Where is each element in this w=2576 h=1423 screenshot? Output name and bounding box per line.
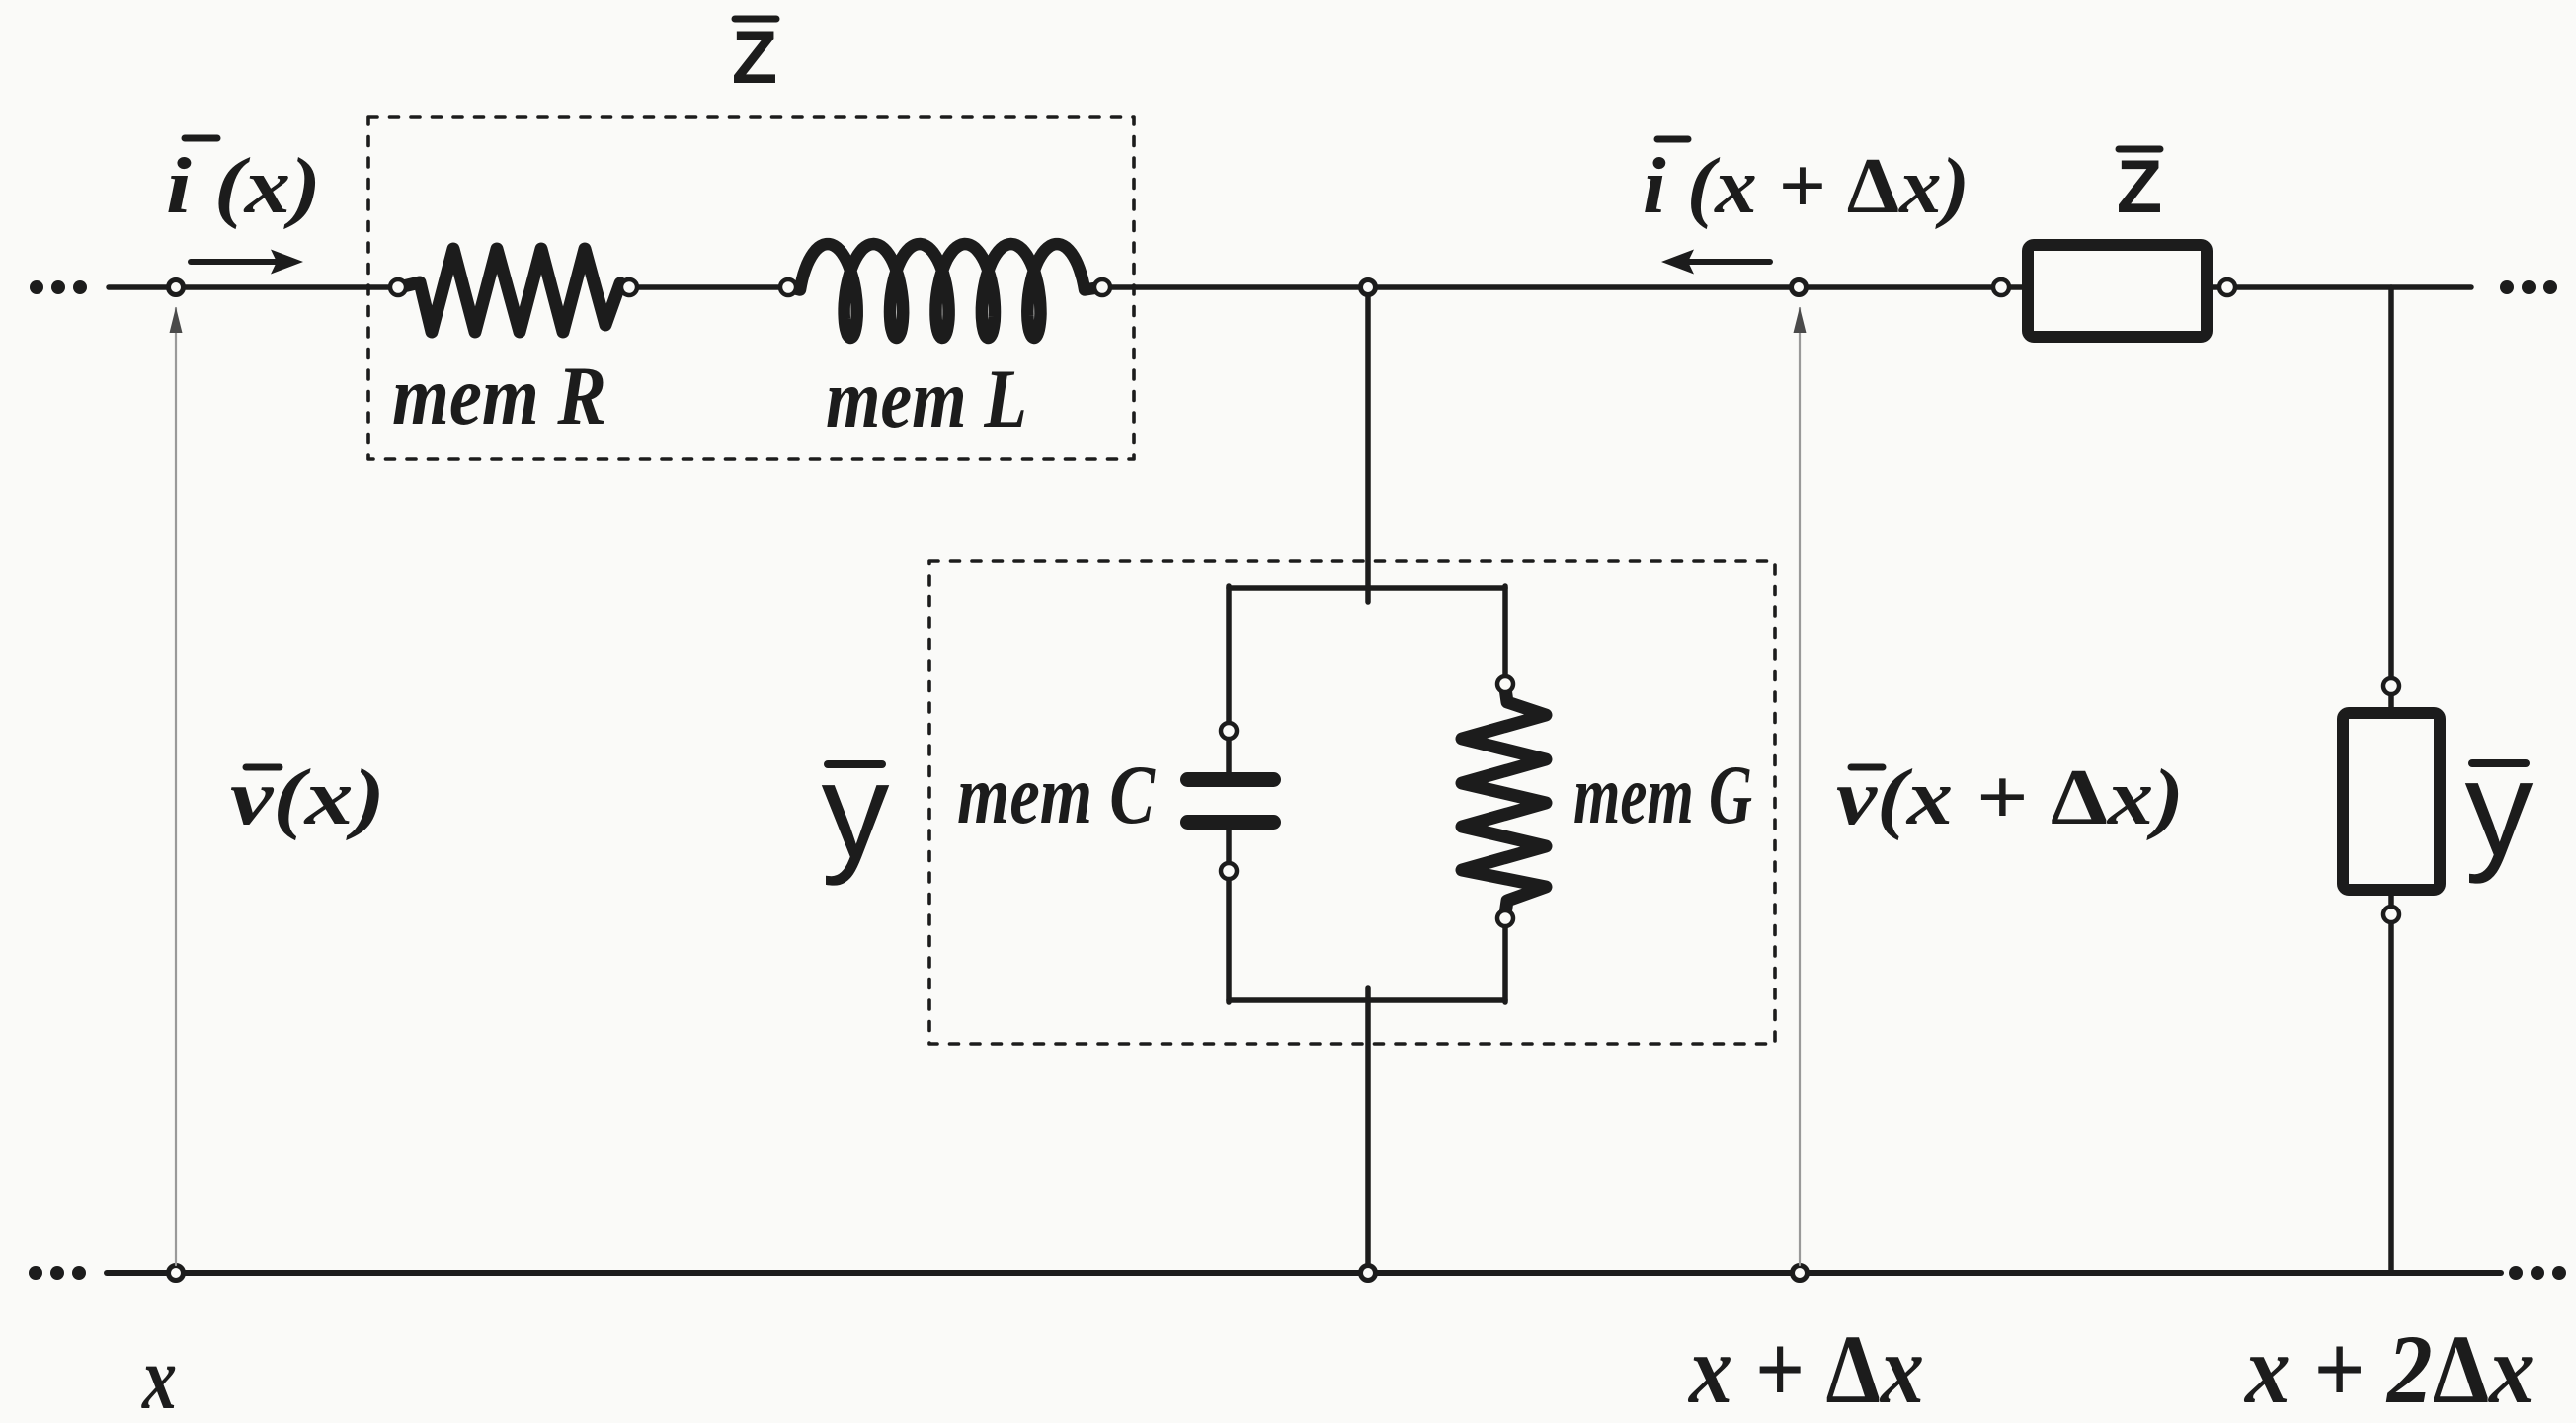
node at x+dx on top rail [1792, 280, 1807, 295]
label v(x+dx) [1836, 754, 2184, 841]
wire right branch vertical upper [2388, 287, 2394, 679]
label Y (shunt) [822, 735, 890, 887]
label x [140, 1327, 177, 1423]
label i(x+dx) bar [1657, 136, 1688, 143]
terminal Y-box top [2383, 678, 2399, 694]
capacitor mem C [1180, 772, 1281, 830]
label i(x+dx) [1643, 143, 1970, 230]
label i(x) bar [185, 135, 217, 142]
label Z (right box) [2117, 145, 2162, 229]
svg-text:mem R: mem R [392, 350, 606, 442]
wire top rail right segment after Z box [2231, 284, 2471, 290]
wire center tap upper (node to parallel top bar) [1365, 287, 1371, 602]
svg-text:i (x + Δx): i (x + Δx) [1643, 143, 1970, 230]
svg-text:v(x + Δx): v(x + Δx) [1836, 754, 2184, 841]
dots continuation top-right [2500, 280, 2557, 294]
arrow current i(x) [191, 250, 303, 275]
svg-text:mem L: mem L [826, 353, 1027, 445]
inductor mem L [794, 244, 1094, 338]
label Y bar (shunt) [828, 760, 882, 768]
svg-text:mem C: mem C [957, 749, 1156, 841]
terminal capacitor bottom [1221, 863, 1237, 879]
label i(x) [166, 143, 321, 230]
terminal Y-box bottom [2383, 907, 2399, 922]
dashed box impedance Z [368, 117, 1134, 459]
conductance mem G (vertical zigzag) [1462, 688, 1546, 914]
svg-text:Z: Z [2117, 145, 2162, 229]
resistor mem R [399, 249, 629, 332]
terminal resistor right [621, 279, 637, 295]
terminal Z-box right [2219, 279, 2235, 295]
label Y (right box) [2465, 733, 2534, 885]
wire conductance branch leads [1502, 586, 1508, 1002]
label mem G [1573, 749, 1752, 841]
terminal conductance top [1497, 676, 1513, 692]
terminal Z-box left [1993, 279, 2009, 295]
node at x+dx on bottom rail [1793, 1266, 1808, 1281]
label mem R [392, 350, 606, 442]
terminal resistor left [390, 279, 406, 295]
terminal inductor right [1094, 279, 1110, 295]
impedance box Z (right) [2028, 245, 2207, 337]
svg-text:i (x): i (x) [166, 143, 321, 230]
label Z bar (left dashed box) [735, 16, 776, 23]
wire top rail from inductor to Z-box terminal [1106, 284, 1997, 290]
svg-text:x + 2Δx: x + 2Δx [2243, 1314, 2535, 1423]
terminal capacitor top [1221, 723, 1237, 739]
wire capacitor plate leads [1226, 740, 1232, 863]
svg-text:v(x): v(x) [230, 754, 385, 841]
label mem C [957, 749, 1156, 841]
svg-text:mem G: mem G [1573, 749, 1752, 841]
dots continuation top-left [30, 280, 87, 294]
arrow voltage v(x) [175, 308, 177, 1265]
svg-text:x: x [140, 1327, 177, 1423]
wire parallel top bar [1229, 585, 1505, 591]
dashed box admittance Y [929, 561, 1775, 1044]
wire capacitor branch upper [1226, 586, 1232, 722]
label mem L [826, 353, 1027, 445]
svg-text:x + Δx: x + Δx [1687, 1314, 1924, 1423]
label Y bar (right box) [2472, 759, 2526, 767]
admittance box Y (right) [2343, 713, 2440, 890]
node center tap top [1361, 280, 1376, 295]
svg-text:y: y [2465, 733, 2534, 885]
label x + dx [1687, 1314, 1924, 1423]
dots continuation bottom-right [2509, 1266, 2566, 1280]
dots continuation bottom-left [29, 1266, 86, 1280]
node center tap bottom [1361, 1266, 1376, 1281]
terminal conductance bottom [1497, 910, 1513, 926]
svg-text:y: y [822, 735, 890, 887]
wire Z-box leads [2007, 284, 2222, 290]
label Z (left dashed box) [732, 16, 777, 100]
arrow voltage v(x+dx) [1799, 308, 1801, 1265]
svg-text:Z: Z [732, 16, 777, 100]
label v(x+dx) bar [1851, 764, 1883, 771]
label x + 2dx [2243, 1314, 2535, 1423]
label Z bar (right box) [2119, 146, 2160, 153]
node at x on bottom rail [169, 1266, 184, 1281]
wire center tap lower (parallel bottom bar to bottom rail) [1365, 988, 1371, 1273]
wire capacitor branch lower [1226, 879, 1232, 1002]
wire top rail between resistor and inductor [633, 284, 784, 290]
arrow current i(x+dx) [1661, 250, 1770, 275]
terminal inductor left [780, 279, 796, 295]
wire Y-box leads [2388, 692, 2394, 908]
node at x on top rail [169, 280, 184, 295]
wire top rail left segment [109, 284, 394, 290]
label v(x) [230, 754, 385, 841]
wire bottom rail [107, 1270, 2501, 1276]
wire right branch vertical lower [2388, 921, 2394, 1273]
wire parallel bottom bar [1229, 997, 1505, 1003]
label v(x) bar [246, 764, 280, 771]
